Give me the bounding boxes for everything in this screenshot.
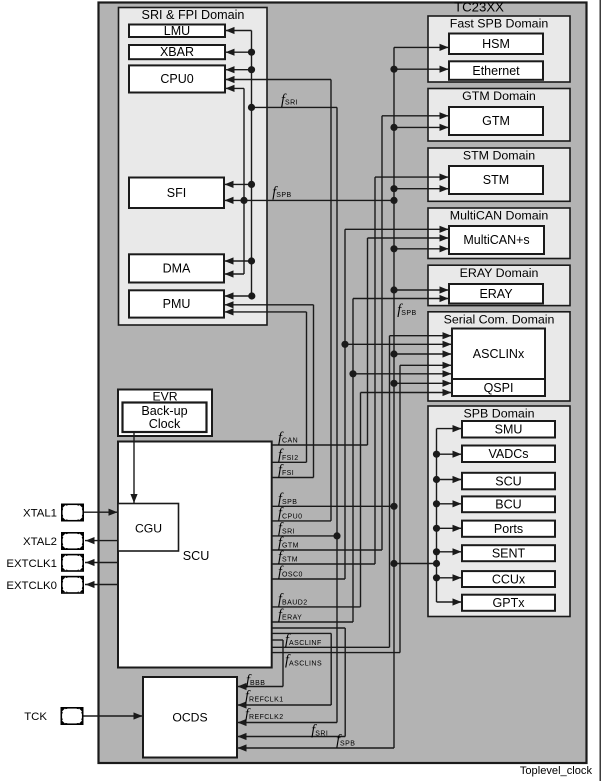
svg-text:OCDS: OCDS [172,711,207,725]
wire f_STM bus x=375 [272,174,449,565]
svg-text:ASCLINx: ASCLINx [473,347,525,361]
svg-text:Clock: Clock [149,417,181,431]
module SMU [462,421,555,438]
pad XTAL2 [62,533,83,549]
box Back-up Clock [123,403,207,433]
box EVR [118,390,212,437]
box SCU [118,442,272,668]
domain box MultiCAN Domain [428,208,570,259]
wire TCK [84,715,144,717]
box OCDS [143,677,237,758]
wire f_OSC0 bus x=345 [272,226,452,579]
svg-text:HSM: HSM [482,37,510,51]
wire f_ASCLINS bus x=400 [272,362,452,653]
svg-text:EXTCLK0: EXTCLK0 [6,580,57,592]
svg-text:SENT: SENT [492,547,526,561]
module BCU [462,496,555,512]
module SFI [129,178,224,209]
svg-text:ERAY Domain: ERAY Domain [460,266,539,280]
wire f_FSI2 bus x=306.5 [224,308,307,462]
svg-text:DMA: DMA [163,262,191,276]
svg-text:Back-up: Back-up [141,404,187,418]
pad XTAL1 [62,504,83,520]
chip boundary box TC23XX [99,3,587,764]
module LMU [129,25,225,38]
module XBAR [129,45,225,59]
module PMU [129,290,224,317]
svg-text:CCUx: CCUx [492,572,526,586]
svg-text:MultiCAN+s: MultiCAN+s [463,233,529,247]
wire f_CPU0 bus x=331 [225,76,331,521]
pad EXTCLK1 [62,555,83,571]
wire f_SRI main bus x=337 [237,107,341,726]
module SCU [462,473,555,490]
svg-text:VADCs: VADCs [488,447,528,461]
module Ports [462,521,555,537]
page frame right edge [599,0,601,781]
wire f_BBB x=283 [237,640,283,690]
module CPU0 [129,65,225,92]
svg-text:SCU: SCU [495,474,521,488]
svg-text:XBAR: XBAR [160,45,194,59]
svg-text:TCK: TCK [24,711,47,723]
svg-text:GTM: GTM [482,114,510,128]
svg-text:XTAL2: XTAL2 [23,536,57,548]
module SENT [462,545,555,561]
svg-text:LMU: LMU [164,24,190,38]
pad TCK [61,708,82,724]
svg-text:SMU: SMU [495,423,523,437]
module DMA [129,254,224,282]
svg-text:CGU: CGU [135,522,162,536]
wire f_SRI local bus x=251.5 [224,27,337,300]
svg-text:BCU: BCU [495,498,521,512]
svg-text:STM: STM [483,173,509,187]
box CGU [118,504,179,552]
module ASCLINx [452,329,545,380]
module GPTx [462,595,555,611]
svg-text:CPU0: CPU0 [160,72,193,86]
wire f_SPB local bus x=244 [224,85,244,278]
svg-text:GTM Domain: GTM Domain [462,89,536,103]
svg-text:TC23XX: TC23XX [454,0,504,15]
wire f_GTM bus x=382 [272,112,449,550]
wire XTAL2 [85,540,118,542]
svg-text:SRI & FPI Domain: SRI & FPI Domain [142,8,245,22]
module HSM [449,34,543,55]
svg-text:ERAY: ERAY [479,287,513,301]
wire SPB domain bus x=436.5 [433,425,462,606]
domain box Fast SPB Domain [428,16,570,82]
svg-text:QSPI: QSPI [484,381,514,395]
wire f_BAUD2 bus x=360.5 [272,389,452,607]
module CCUx [462,571,555,587]
svg-text:SPB Domain: SPB Domain [464,406,535,420]
svg-text:Serial Com. Domain: Serial Com. Domain [444,313,555,327]
module Ethernet [449,61,543,80]
wire f_ASCLINF bus x=389.5 [272,332,452,647]
wire f_ERAY bus x=353 [272,295,452,622]
svg-text:EVR: EVR [152,390,177,404]
svg-text:MultiCAN Domain: MultiCAN Domain [450,209,549,223]
domain box Serial Com. Domain [428,312,570,401]
wire f_FSI bus x=313.5 [224,301,314,477]
svg-text:PMU: PMU [163,297,191,311]
svg-text:XTAL1: XTAL1 [23,508,57,520]
svg-text:GPTx: GPTx [493,596,526,610]
svg-text:Toplevel_clock: Toplevel_clock [520,765,593,777]
domain box SPB Domain [428,406,570,617]
svg-text:SFI: SFI [167,186,186,200]
domain box ERAY Domain [428,265,570,305]
wire Back-up Clock to CGU [133,432,135,503]
domain box STM Domain [428,148,570,201]
module GTM [449,107,543,135]
wire EXTCLK1 [85,562,118,564]
wire EXTCLK0 [85,584,118,586]
svg-text:STM Domain: STM Domain [463,149,535,163]
module VADCs [462,446,555,463]
module STM [449,166,543,194]
wire f_SPB main bus x=394 [224,44,452,752]
wire XTAL1 [84,511,118,513]
wire f_SRI to OCDS x=345.2 [237,628,345,740]
svg-text:Fast SPB Domain: Fast SPB Domain [450,17,549,31]
svg-text:SCU: SCU [183,549,210,563]
domain box GTM Domain [428,89,570,142]
module QSPI [452,379,545,396]
module ERAY [449,284,543,304]
svg-text:Ports: Ports [494,522,523,536]
pad EXTCLK0 [62,577,83,593]
wire f_CAN bus x=367.5 [272,234,449,445]
domain box SRI & FPI Domain [119,8,268,326]
svg-text:EXTCLK1: EXTCLK1 [6,558,57,570]
module MultiCAN+s [449,226,544,254]
wire f_REFCLK1 x=331.2 [237,633,331,708]
svg-text:Ethernet: Ethernet [472,64,520,78]
